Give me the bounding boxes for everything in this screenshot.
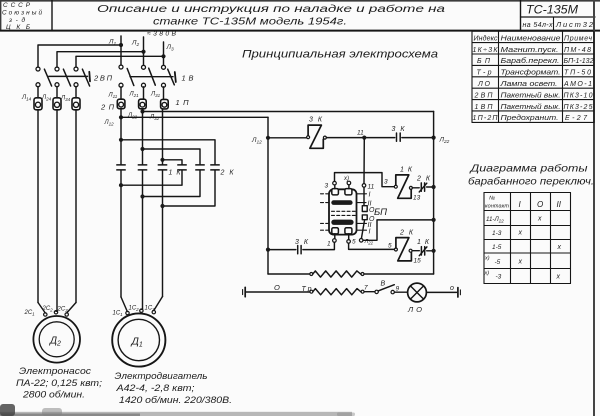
svg-text:1ВП: 1ВП [475, 104, 494, 111]
svg-text:Описание и инструкция по нала: Описание и инструкция по наладке и работ… [97, 3, 445, 15]
motor Д1 caption [115, 371, 233, 406]
svg-text:1С1: 1С1 [113, 311, 124, 318]
svg-text:Пакетный вык.: Пакетный вык. [501, 91, 561, 99]
contactor coil 3К [307, 117, 327, 149]
phase vertical Л32 with 1К main contact gap [162, 109, 164, 297]
bus phase 1 [38, 45, 121, 67]
wire node 11 into drum О pad [363, 187, 365, 206]
svg-text:х: х [556, 274, 561, 281]
title block left box [51, 0, 53, 31]
svg-text:ПА-22; 0,125 квт;: ПА-22; 0,125 квт; [16, 378, 102, 389]
title block left box text [2, 2, 42, 31]
svg-text:15: 15 [414, 258, 422, 265]
svg-text:13: 13 [413, 195, 421, 202]
svg-text:7: 7 [364, 285, 368, 292]
svg-text:-5: -5 [495, 259, 501, 266]
switch 2ВП [36, 67, 113, 87]
svg-text:1-3: 1-3 [492, 230, 502, 237]
svg-text:х: х [518, 230, 523, 237]
svg-text:Союзный: Союзный [2, 9, 42, 17]
motor Д2 terminals [44, 311, 69, 317]
terminal О left [243, 283, 280, 297]
svg-text:ЦКБ: ЦКБ [6, 24, 30, 31]
svg-text:ТС-135М: ТС-135М [526, 5, 578, 17]
drum switch position dashes and marks [321, 194, 367, 230]
lamp ЛО [407, 283, 426, 314]
svg-text:№: № [489, 196, 495, 202]
svg-text:В: В [381, 281, 386, 288]
wire control bottom rail right [364, 273, 434, 275]
svg-text:х: х [537, 216, 542, 223]
contact 3К self-holding [392, 126, 406, 141]
contactor 2К main contacts [178, 165, 219, 170]
header rule [0, 30, 600, 32]
motor Д1 terminal labels [113, 306, 156, 318]
svg-text:О: О [274, 283, 280, 292]
2К branch wire A (phase1 to out3) [119, 138, 215, 208]
wire drum terminal 5 to coil 2К [349, 243, 395, 250]
svg-text:Т-р: Т-р [477, 70, 492, 77]
node Л1 [108, 36, 123, 47]
svg-text:БП-1-132: БП-1-132 [564, 58, 594, 65]
node Л22 [432, 136, 450, 146]
svg-text:О: О [537, 200, 543, 209]
svg-text:А42-4, -2,8 квт;: А42-4, -2,8 квт; [115, 383, 195, 394]
motor Д1 [112, 313, 165, 366]
wire node 11 down to drum [363, 138, 365, 184]
svg-text:-3: -3 [496, 274, 502, 281]
node Л12 on control rail [251, 136, 270, 146]
svg-text:1420 об/мин. 220/380В.: 1420 об/мин. 220/380В. [119, 395, 232, 406]
wire lamp to terminal о right [426, 291, 456, 293]
phase vertical Л22 with 1К main contact gap [142, 109, 144, 309]
contactor 1К main contacts [117, 165, 167, 170]
transformer Тр primary [310, 271, 364, 277]
svg-text:Л12: Л12 [104, 120, 115, 127]
svg-text:БП: БП [477, 58, 491, 65]
wire О to transformer secondary [245, 291, 310, 293]
svg-text:1С3: 1С3 [145, 306, 156, 313]
component table grid [472, 31, 594, 122]
svg-text:1-5: 1-5 [492, 244, 502, 251]
drum switch position labels [368, 192, 376, 236]
svg-text:з-д: з-д [8, 16, 25, 24]
svg-text:5: 5 [388, 243, 392, 250]
svg-text:БП: БП [374, 207, 387, 218]
control left rail Л12 [267, 117, 269, 274]
wire drum pad to terminal 5 [348, 234, 350, 240]
svg-text:Индекс: Индекс [474, 34, 499, 42]
svg-text:Л22: Л22 [127, 113, 138, 120]
svg-text:I: I [369, 192, 371, 199]
page top border [0, 0, 600, 2]
wire left rail to contact 3К lower [268, 249, 296, 251]
svg-text:2ВП: 2ВП [93, 74, 113, 83]
contact 1К normally closed [417, 239, 430, 256]
switch 1В [119, 65, 194, 87]
bus phase 3 [76, 56, 164, 67]
contact 2К normally closed [416, 176, 431, 193]
contactor coil 2К [394, 230, 413, 261]
terminal о right [450, 285, 460, 297]
svg-text:I: I [369, 229, 371, 236]
drum switch node 11 terminal [362, 184, 374, 191]
wire drum pad to terminal 1 [334, 234, 336, 239]
wire drum О pad to terminal Л22 [361, 220, 364, 239]
svg-text:Е-27: Е-27 [565, 115, 588, 122]
svg-text:2ВП: 2ВП [474, 92, 494, 99]
drum terminal 5 [347, 239, 356, 246]
bus phase 2 [57, 52, 144, 68]
wire terminal 3 into drum pad [334, 185, 336, 189]
wire Л12 long line to control [104, 115, 269, 126]
svg-text:II: II [557, 200, 562, 209]
wire Л1 to 1В [120, 45, 122, 65]
svg-text:2С2: 2С2 [42, 306, 54, 313]
node 7 [364, 285, 375, 292]
node Л3 [161, 42, 174, 58]
fuse 2П pole 2 [53, 98, 61, 110]
wire control top rail left [268, 137, 307, 139]
drum switch terminal х) [343, 176, 351, 185]
contactor coil 1К [394, 167, 413, 199]
svg-text:1: 1 [327, 241, 331, 248]
node Л2 [131, 37, 146, 54]
wire control bottom rail left [268, 273, 310, 275]
node at rail 2К row [432, 249, 436, 253]
node on left rail for 2К row [266, 248, 270, 252]
svg-text:3: 3 [325, 183, 329, 190]
svg-text:11: 11 [368, 184, 375, 191]
wire Л3 to 1В [163, 56, 165, 65]
motor Д2 terminal labels [24, 306, 69, 317]
svg-text:Л14: Л14 [21, 95, 32, 102]
drum switch right О pads [362, 206, 367, 220]
svg-text:станке ТС-135М модель 1954г.: станке ТС-135М модель 1954г. [153, 16, 347, 28]
svg-text:Лист32: Лист32 [555, 20, 594, 29]
diagram title [468, 163, 594, 188]
svg-text:Пакетный вык.: Пакетный вык. [501, 103, 561, 111]
svg-text:Магнит.пуск.: Магнит.пуск. [501, 47, 559, 54]
svg-text:5: 5 [352, 239, 356, 246]
motor Д1 terminals [126, 309, 156, 315]
contact 3К lower [295, 239, 309, 254]
svg-text:Электродвигатель: Электродвигатель [115, 371, 208, 382]
wire coil 1К to contact 2К [412, 187, 419, 189]
svg-text:2С1: 2С1 [24, 310, 36, 317]
component table text [473, 34, 594, 122]
drum terminal 1 [327, 239, 336, 248]
svg-text:АМО-1: АМО-1 [563, 81, 592, 88]
svg-text:2С3: 2С3 [57, 307, 69, 314]
svg-text:1С2: 1С2 [129, 306, 140, 313]
svg-text:ЛО: ЛО [477, 81, 491, 88]
svg-text:Предохранит.: Предохранит. [501, 114, 559, 122]
svg-text:О: О [369, 207, 375, 214]
control right rail Л22 [433, 112, 435, 275]
node 9 [394, 286, 407, 293]
svg-text:Л11: Л11 [108, 93, 118, 100]
drum switch terminal 3 [325, 181, 337, 189]
wire terminal х) into drum pad [348, 185, 350, 189]
fuse 2П pole 3 [72, 98, 80, 110]
motor Д1 leads [121, 297, 163, 312]
wire contact 1К to rail [427, 250, 434, 252]
drum switch БП body [329, 189, 357, 235]
svg-text:11: 11 [357, 130, 364, 137]
svg-text:Трансформат.: Трансформат. [501, 70, 561, 77]
svg-text:х): х) [484, 271, 490, 277]
wire terminal 3 to coil 1К [335, 173, 395, 187]
wire 2ВП to fuses 2П [38, 87, 76, 98]
switch В [375, 281, 395, 294]
wire Л22 long line to control [127, 109, 434, 119]
node 11 [357, 130, 366, 140]
drum terminal Л22 [359, 239, 373, 246]
2К branch wire C (phase3 to out1) [119, 158, 182, 188]
wire coil 3К to node 11 [326, 137, 394, 139]
svg-text:Электронасос: Электронасос [19, 366, 91, 377]
fuse 1П pole 2 [139, 99, 147, 109]
svg-text:о: о [450, 285, 454, 292]
wire 1В to fuses 1П [121, 87, 164, 99]
svg-text:х: х [518, 259, 523, 266]
svg-text:ПМ-48: ПМ-48 [564, 47, 591, 54]
page right border [593, 0, 595, 416]
scan smudges bottom [0, 404, 355, 416]
svg-text:1П-2П: 1П-2П [473, 115, 499, 122]
wire drum Л22 to right rail [363, 218, 436, 241]
wire contact 2К to rail [427, 186, 434, 188]
svg-text:Л21: Л21 [129, 92, 140, 99]
wire Л2 to 1В [143, 52, 145, 65]
wire contact 3К to Л22 node [402, 137, 434, 139]
diagram table grid [484, 193, 571, 284]
svg-text:Л31: Л31 [150, 92, 161, 99]
phase vertical Л12 with 1К main contact gap [120, 109, 122, 297]
svg-text:барабанного переключ.: барабанного переключ. [468, 176, 594, 188]
motor Д2 [33, 316, 80, 363]
svg-text:2800 об/мин.: 2800 об/мин. [22, 390, 85, 401]
svg-text:Наименование: Наименование [501, 35, 561, 42]
svg-text:9: 9 [396, 286, 400, 293]
svg-text:1К÷3К: 1К÷3К [473, 47, 499, 54]
svg-text:Диаграмма работы: Диаграмма работы [469, 163, 588, 175]
page left border segment [0, 0, 2, 31]
motor Д2 caption [16, 366, 102, 401]
svg-text:ТП-50: ТП-50 [564, 70, 591, 77]
svg-text:3: 3 [384, 179, 388, 186]
svg-text:Примеч: Примеч [564, 35, 592, 42]
node at rail 1К row [432, 185, 436, 189]
svg-text:х): х) [343, 176, 349, 182]
fuse 2П pole 1 [34, 98, 42, 110]
svg-text:х: х [557, 244, 562, 251]
svg-text:Лампа освет.: Лампа освет. [499, 81, 557, 88]
transformer Тр secondary [310, 289, 364, 295]
svg-text:Бараб.перекл.: Бараб.перекл. [501, 57, 560, 65]
fuse 1П pole 1 [117, 99, 125, 109]
wire coil 2К to contact 1К [412, 250, 419, 252]
svg-text:х): х) [484, 256, 490, 262]
title block right box [521, 0, 596, 31]
svg-text:1В: 1В [182, 74, 194, 83]
svg-text:ПК3-25: ПК3-25 [564, 104, 593, 111]
svg-text:контакт: контакт [485, 204, 509, 210]
svg-text:на 54л-х: на 54л-х [523, 22, 554, 29]
fuse 1П pole 3 [161, 99, 169, 109]
wire contact 3К to drum terminal 1 [303, 242, 335, 249]
svg-text:1П: 1П [176, 98, 190, 107]
diagram table text [484, 196, 562, 281]
svg-text:ПК3-10: ПК3-10 [564, 92, 593, 99]
2К branch wire B (phase2 to out2) [140, 147, 200, 199]
svg-text:Принципиальная электросхема: Принципиальная электросхема [242, 49, 438, 61]
wire fuse 2П to motor Д2 leads [38, 110, 76, 311]
